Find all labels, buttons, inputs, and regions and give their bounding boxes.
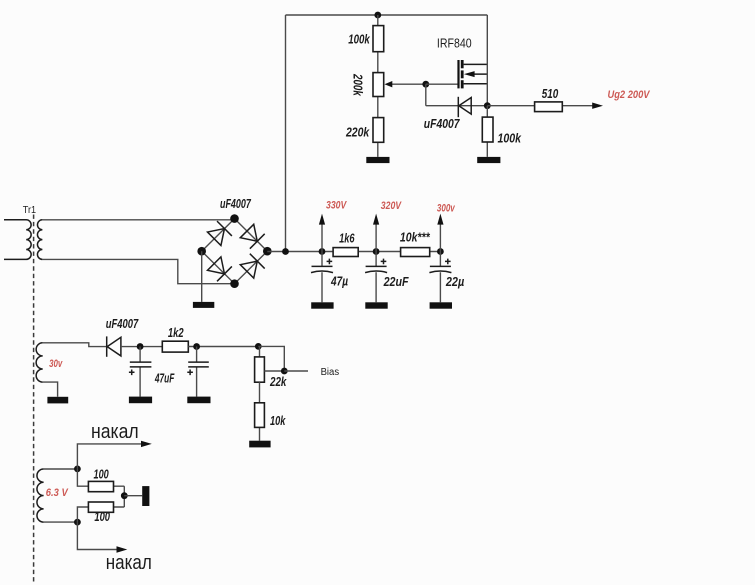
node junction top rail / divider	[374, 12, 381, 19]
node heater bottom	[74, 519, 81, 526]
svg-text:накал: накал	[106, 552, 152, 574]
wire diode to node	[121, 346, 162, 348]
svg-text:Bias: Bias	[321, 367, 340, 378]
winding primary Tr1	[4, 220, 31, 260]
svg-text:IRF840: IRF840	[437, 36, 472, 50]
wire heater bottom lead	[44, 521, 78, 523]
svg-text:22µ: 22µ	[445, 275, 464, 289]
diode bridge top-right	[240, 224, 265, 249]
node B+ feed	[282, 248, 289, 255]
svg-text:Tr1: Tr1	[23, 205, 37, 216]
ground (30v winding)	[47, 397, 68, 404]
node bias 1	[137, 343, 144, 350]
node 320V	[373, 248, 380, 255]
wire output through 510	[487, 105, 594, 107]
node bias tap	[281, 368, 288, 375]
svg-text:320V: 320V	[381, 200, 403, 212]
svg-text:10k***: 10k***	[400, 230, 431, 244]
wire gate down to diode	[426, 84, 488, 106]
node heater top	[74, 466, 81, 473]
wire heater right vertical	[123, 486, 125, 507]
arrow output Ug2	[592, 103, 603, 109]
svg-text:330V: 330V	[326, 200, 348, 212]
node gate junction	[422, 81, 429, 88]
winding 30v	[36, 343, 43, 382]
transformer core (dashed)	[33, 215, 35, 585]
ground (C2)	[365, 302, 387, 308]
resistor 100k (divider top)	[373, 26, 384, 52]
resistor 100k (gate pulldown)	[486, 106, 488, 157]
node bias 3 (22k top)	[255, 343, 262, 350]
wire to Bias	[284, 370, 308, 372]
resistor 510	[535, 102, 563, 112]
ground (C3)	[430, 302, 452, 308]
svg-text:накал: накал	[91, 421, 139, 443]
svg-text:47µ: 47µ	[330, 274, 348, 288]
chassis bar	[142, 486, 149, 506]
wire top rail	[286, 14, 488, 16]
resistor 22k	[255, 357, 265, 382]
wire heater top lead	[44, 468, 78, 470]
wire 1k2 to node 2	[188, 346, 258, 348]
svg-text:100k: 100k	[348, 33, 370, 47]
wire bypass over 22k	[258, 346, 284, 371]
wire to chassis	[124, 495, 142, 497]
capacitor C3 22u	[429, 252, 451, 303]
resistor 1k2	[162, 341, 188, 352]
wire 22k to 10k	[259, 382, 261, 441]
resistor 100 (upper)	[77, 469, 124, 486]
arrow 330V	[321, 223, 323, 252]
ground (divider)	[366, 157, 389, 163]
wire bias winding top lead	[43, 343, 106, 347]
svg-text:100: 100	[94, 468, 109, 482]
wire divider stubs	[377, 15, 379, 157]
winding secondary Tr1 (HV)	[37, 220, 42, 260]
diode D3 uF4007 (bias)	[107, 336, 121, 356]
resistor 10k	[255, 403, 265, 428]
wire drain/source vertical	[486, 15, 488, 106]
diode D2 uF4007 (gate protection)	[458, 97, 471, 117]
svg-text:22uF: 22uF	[383, 275, 409, 289]
winding 6.3V	[37, 469, 44, 522]
transistor Q1 IRF840	[457, 60, 487, 88]
node 330V	[319, 248, 326, 255]
node bridge left	[197, 247, 206, 256]
svg-text:1k6: 1k6	[339, 232, 355, 246]
arrow heater top	[77, 444, 141, 469]
resistor 100 (lower)	[77, 507, 124, 522]
svg-text:10k: 10k	[270, 414, 286, 428]
svg-text:uF4007: uF4007	[220, 197, 252, 211]
svg-text:100: 100	[94, 510, 110, 524]
potentiometer 200k	[373, 73, 384, 97]
wire AC top	[42, 219, 234, 221]
svg-text:47uF: 47uF	[154, 372, 174, 386]
resistor 1k6	[333, 248, 358, 257]
svg-text:6.3 V: 6.3 V	[46, 487, 69, 499]
svg-text:100k: 100k	[498, 131, 522, 145]
svg-text:uF4007: uF4007	[106, 317, 139, 331]
svg-text:510: 510	[542, 87, 559, 101]
svg-text:200k: 200k	[351, 73, 365, 96]
svg-text:22k: 22k	[269, 375, 287, 389]
wire left vertical from top rail to B+ rail	[285, 15, 287, 252]
node bridge right	[263, 247, 272, 256]
svg-text:220k: 220k	[345, 126, 370, 140]
diode bridge bottom-left	[207, 256, 232, 281]
node 300v	[437, 248, 444, 255]
wire bias winding bottom lead	[43, 382, 58, 397]
capacitor C4 47uF	[129, 347, 152, 397]
arrow 320V	[375, 223, 377, 252]
diode bridge top-left	[207, 221, 232, 246]
ground (C1)	[311, 302, 333, 308]
resistor 10k***	[401, 248, 430, 257]
resistor 220k (divider bottom)	[373, 118, 384, 143]
node heater mid	[121, 492, 128, 499]
svg-text:1k2: 1k2	[168, 326, 184, 340]
diode bridge bottom-right	[240, 254, 265, 279]
capacitor C5	[187, 347, 209, 397]
arrow heater bottom	[77, 522, 116, 549]
wire 22k tap	[264, 370, 284, 372]
ground (C5)	[187, 397, 210, 404]
ground (C4)	[129, 397, 152, 404]
wire gate lead	[426, 83, 458, 85]
wire 22k top stub	[259, 346, 261, 357]
node bridge top	[230, 214, 239, 223]
arrow 300v	[439, 223, 441, 252]
wire AC bottom	[42, 259, 234, 283]
svg-text:uF4007: uF4007	[424, 117, 461, 131]
node bridge bottom	[230, 279, 239, 288]
ground (bridge)	[193, 302, 214, 308]
wire B+ rail	[267, 251, 440, 253]
svg-text:Ug2 200V: Ug2 200V	[608, 89, 651, 101]
wire bridge minus to ground	[201, 251, 203, 302]
wire bridge diamond	[202, 219, 268, 284]
svg-text:300v: 300v	[437, 203, 456, 215]
svg-text:30v: 30v	[49, 358, 63, 370]
node diode/output junction	[484, 102, 491, 109]
ground (10k)	[249, 441, 270, 448]
wiper arrow of 200k	[392, 83, 426, 85]
node bias 2	[193, 343, 200, 350]
capacitor C1 47u	[311, 252, 333, 303]
ground (100k right)	[477, 157, 500, 163]
capacitor C2 22uF	[365, 252, 387, 303]
